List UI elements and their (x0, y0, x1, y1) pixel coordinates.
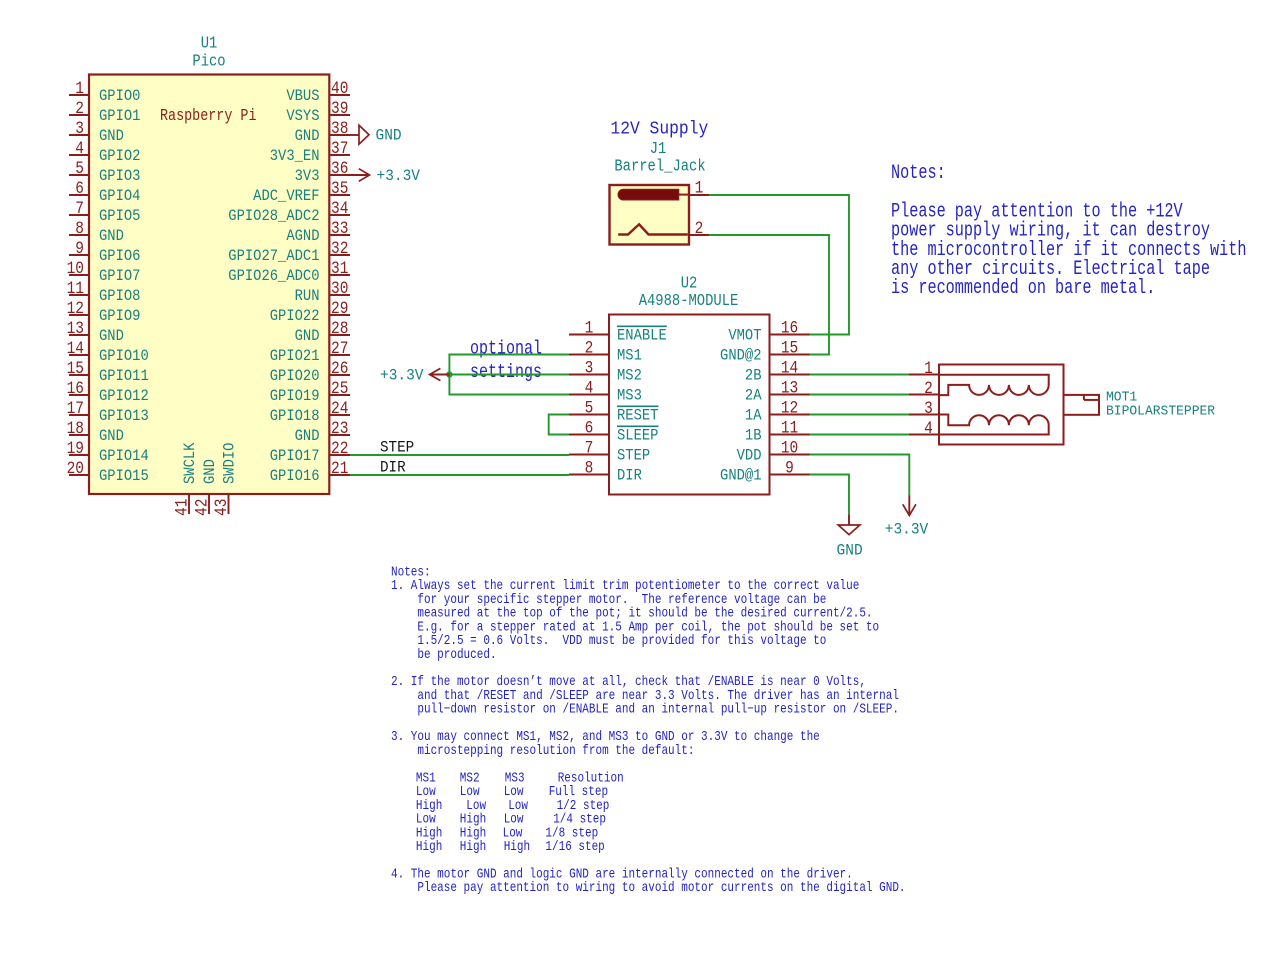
svg-text:GPIO7: GPIO7 (99, 268, 140, 285)
svg-text:12: 12 (67, 299, 84, 318)
svg-text:43: 43 (212, 499, 231, 516)
svg-text:6: 6 (585, 418, 594, 437)
svg-text:1: 1 (695, 179, 704, 198)
svg-text:3: 3 (585, 358, 594, 377)
svg-text:be produced.: be produced. (391, 646, 497, 663)
svg-text:41: 41 (172, 499, 191, 516)
svg-text:32: 32 (331, 239, 348, 258)
svg-text:7: 7 (585, 438, 594, 457)
svg-text:11: 11 (67, 279, 84, 298)
svg-text:RUN: RUN (295, 288, 320, 305)
svg-text:2: 2 (585, 338, 594, 357)
svg-text:VSYS: VSYS (286, 108, 319, 125)
svg-text:3V3_EN: 3V3_EN (270, 148, 320, 165)
svg-text:2B: 2B (745, 368, 762, 385)
svg-text:GPIO19: GPIO19 (270, 388, 320, 405)
svg-text:U1: U1 (201, 33, 218, 53)
svg-text:11: 11 (781, 418, 798, 437)
svg-text:Barrel_Jack: Barrel_Jack (614, 156, 705, 176)
svg-text:4: 4 (924, 419, 933, 438)
svg-text:BIPOLARSTEPPER: BIPOLARSTEPPER (1106, 404, 1215, 420)
svg-text:GPIO13: GPIO13 (99, 408, 149, 425)
svg-text:42: 42 (192, 499, 211, 516)
svg-text:21: 21 (331, 459, 348, 478)
svg-text:9: 9 (75, 239, 84, 258)
svg-text:Please pay attention to wiring: Please pay attention to wiring to avoid … (391, 879, 906, 896)
svg-text:22: 22 (331, 439, 348, 458)
svg-text:+3.3V: +3.3V (380, 366, 424, 385)
svg-text:STEP: STEP (617, 448, 650, 465)
svg-text:DIR: DIR (380, 460, 406, 477)
svg-text:is recommended on bare metal.: is recommended on bare metal. (891, 277, 1155, 300)
svg-text:GPIO8: GPIO8 (99, 288, 140, 305)
svg-text:DIR: DIR (617, 468, 642, 485)
svg-text:30: 30 (331, 279, 348, 298)
svg-text:4: 4 (75, 139, 84, 158)
svg-text:10: 10 (781, 438, 798, 457)
svg-text:13: 13 (67, 319, 84, 338)
svg-text:GND: GND (203, 459, 220, 484)
svg-text:8: 8 (75, 219, 84, 238)
svg-text:33: 33 (331, 219, 348, 238)
svg-text:23: 23 (331, 419, 348, 438)
svg-text:GPIO10: GPIO10 (99, 348, 149, 365)
svg-text:12V Supply: 12V Supply (610, 119, 708, 140)
svg-text:ENABLE: ENABLE (617, 328, 667, 345)
svg-text:1: 1 (924, 359, 933, 378)
svg-text:pull−down resistor on /ENABLE: pull−down resistor on /ENABLE and an int… (391, 700, 899, 717)
svg-text:GND: GND (99, 228, 124, 245)
svg-text:optional: optional (470, 339, 542, 360)
svg-text:microstepping resolution from: microstepping resolution from the defaul… (391, 742, 694, 759)
svg-text:36: 36 (331, 159, 348, 178)
svg-text:ADC_VREF: ADC_VREF (253, 188, 319, 205)
svg-text:GPIO9: GPIO9 (99, 308, 140, 325)
svg-text:13: 13 (781, 378, 798, 397)
svg-text:High: High (416, 838, 442, 855)
svg-text:GPIO1: GPIO1 (99, 108, 141, 125)
svg-text:2A: 2A (745, 388, 762, 405)
svg-text:6: 6 (75, 179, 84, 198)
svg-text:GPIO17: GPIO17 (270, 448, 320, 465)
svg-text:16: 16 (781, 318, 798, 337)
svg-text:39: 39 (331, 99, 348, 118)
svg-text:GND: GND (376, 126, 402, 145)
svg-text:GPIO4: GPIO4 (99, 188, 141, 205)
svg-text:GPIO3: GPIO3 (99, 168, 140, 185)
svg-text:GPIO16: GPIO16 (270, 468, 320, 485)
svg-text:1A: 1A (745, 408, 762, 425)
svg-text:38: 38 (331, 119, 348, 138)
svg-text:2: 2 (695, 219, 704, 238)
svg-text:RESET: RESET (617, 408, 659, 425)
svg-text:5: 5 (585, 398, 594, 417)
svg-text:SLEEP: SLEEP (617, 428, 659, 445)
svg-text:GND@2: GND@2 (720, 348, 761, 365)
svg-text:GPIO0: GPIO0 (99, 88, 140, 105)
svg-text:GND: GND (99, 328, 124, 345)
svg-text:1/16 step: 1/16 step (545, 838, 604, 855)
svg-text:AGND: AGND (286, 228, 319, 245)
svg-text:GND: GND (295, 428, 320, 445)
svg-text:GND@1: GND@1 (720, 468, 762, 485)
svg-text:MS2: MS2 (617, 368, 642, 385)
svg-text:GPIO26_ADC0: GPIO26_ADC0 (228, 268, 319, 285)
svg-text:3: 3 (75, 119, 84, 138)
svg-text:settings: settings (470, 363, 542, 384)
svg-text:5: 5 (75, 159, 84, 178)
svg-text:40: 40 (331, 79, 348, 98)
svg-text:A4988-MODULE: A4988-MODULE (639, 291, 739, 311)
svg-text:17: 17 (67, 399, 84, 418)
svg-text:26: 26 (331, 359, 348, 378)
svg-text:2: 2 (924, 379, 933, 398)
svg-text:31: 31 (331, 259, 348, 278)
svg-text:GPIO15: GPIO15 (99, 468, 149, 485)
svg-text:19: 19 (67, 439, 84, 458)
svg-text:MS1: MS1 (617, 348, 642, 365)
svg-text:MS3: MS3 (617, 388, 642, 405)
svg-text:Pico: Pico (192, 51, 225, 71)
svg-text:1: 1 (75, 79, 84, 98)
svg-text:1: 1 (585, 318, 594, 337)
svg-text:24: 24 (331, 399, 348, 418)
svg-text:GPIO12: GPIO12 (99, 388, 149, 405)
svg-text:VMOT: VMOT (728, 328, 761, 345)
svg-text:GPIO28_ADC2: GPIO28_ADC2 (228, 208, 319, 225)
svg-text:15: 15 (781, 338, 798, 357)
svg-text:34: 34 (331, 199, 348, 218)
svg-text:27: 27 (331, 339, 348, 358)
svg-text:14: 14 (781, 358, 798, 377)
svg-text:16: 16 (67, 379, 84, 398)
svg-text:29: 29 (331, 299, 348, 318)
svg-text:GND: GND (99, 428, 124, 445)
svg-text:SWDIO: SWDIO (222, 442, 239, 484)
svg-text:VBUS: VBUS (286, 88, 319, 105)
svg-text:STEP: STEP (380, 440, 414, 457)
svg-text:28: 28 (331, 319, 348, 338)
svg-text:GPIO6: GPIO6 (99, 248, 140, 265)
svg-text:VDD: VDD (737, 448, 762, 465)
svg-text:3V3: 3V3 (295, 168, 320, 185)
svg-text:+3.3V: +3.3V (377, 167, 421, 186)
svg-text:GPIO14: GPIO14 (99, 448, 149, 465)
svg-text:7: 7 (75, 199, 84, 218)
svg-text:GND: GND (295, 328, 320, 345)
svg-text:4: 4 (585, 378, 594, 397)
svg-text:35: 35 (331, 179, 348, 198)
svg-text:GPIO18: GPIO18 (270, 408, 320, 425)
svg-text:2: 2 (75, 99, 84, 118)
svg-text:GND: GND (295, 128, 320, 145)
svg-text:14: 14 (67, 339, 84, 358)
svg-text:8: 8 (585, 458, 594, 477)
svg-text:GPIO21: GPIO21 (270, 348, 320, 365)
svg-text:GND: GND (837, 541, 863, 560)
svg-text:GPIO20: GPIO20 (270, 368, 320, 385)
svg-text:High: High (460, 838, 486, 855)
svg-text:18: 18 (67, 419, 84, 438)
svg-text:GPIO27_ADC1: GPIO27_ADC1 (228, 248, 319, 265)
svg-text:High: High (504, 838, 530, 855)
svg-text:1B: 1B (745, 428, 762, 445)
svg-text:GPIO11: GPIO11 (99, 368, 149, 385)
svg-text:10: 10 (67, 259, 84, 278)
svg-text:GPIO22: GPIO22 (270, 308, 320, 325)
svg-text:25: 25 (331, 379, 348, 398)
svg-text:3: 3 (924, 399, 933, 418)
svg-text:9: 9 (785, 458, 794, 477)
svg-text:GPIO5: GPIO5 (99, 208, 140, 225)
svg-text:+3.3V: +3.3V (885, 520, 929, 539)
svg-text:Notes:: Notes: (891, 162, 946, 185)
svg-text:SWCLK: SWCLK (183, 442, 200, 484)
svg-text:37: 37 (331, 139, 348, 158)
svg-text:Raspberry Pi: Raspberry Pi (160, 108, 257, 125)
svg-text:15: 15 (67, 359, 84, 378)
svg-text:12: 12 (781, 398, 798, 417)
svg-text:GPIO2: GPIO2 (99, 148, 140, 165)
svg-text:GND: GND (99, 128, 124, 145)
svg-text:20: 20 (67, 459, 84, 478)
